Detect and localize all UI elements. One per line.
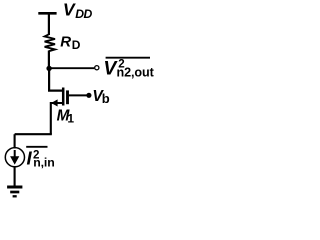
svg-text:R: R [60, 33, 71, 50]
output terminal open circle [95, 66, 99, 70]
svg-text:I: I [27, 148, 33, 169]
node junction dot [46, 66, 51, 71]
svg-text:b: b [102, 91, 110, 106]
svg-text:D: D [72, 38, 81, 52]
svg-text:n,in: n,in [33, 155, 54, 169]
label VDD [63, 0, 93, 21]
ground symbol [7, 187, 22, 196]
label Vn2,out squared with overline [103, 58, 154, 80]
transistor M1 channel bar [62, 88, 65, 106]
wire bottom horizontal to current source [15, 133, 52, 135]
gate lead wire [69, 94, 87, 96]
label In,in squared with overline [26, 147, 54, 170]
wire resistor to node [48, 51, 50, 71]
resistor RD [45, 34, 55, 51]
wire node to output terminal [49, 67, 94, 69]
source stub wire with arrow [51, 102, 63, 104]
svg-text:V: V [63, 0, 76, 20]
current source In circle [5, 148, 24, 167]
current source arrow [14, 150, 16, 158]
VDD supply bar [38, 12, 56, 15]
transistor M1 gate bar [66, 90, 69, 104]
Vb terminal dot [86, 93, 91, 98]
source arrowhead [51, 99, 58, 106]
label RD [60, 33, 81, 52]
wire VDD bar to resistor [48, 13, 50, 35]
label Vb [92, 88, 109, 106]
label M1 [57, 107, 75, 125]
wire source down [50, 102, 52, 134]
wire down to current source top [14, 134, 16, 148]
wire current source to ground [14, 167, 16, 187]
svg-text:DD: DD [75, 7, 92, 21]
svg-text:1: 1 [67, 111, 74, 125]
svg-text:n2,out: n2,out [117, 66, 155, 80]
wire node to drain of M1 [49, 68, 62, 90]
